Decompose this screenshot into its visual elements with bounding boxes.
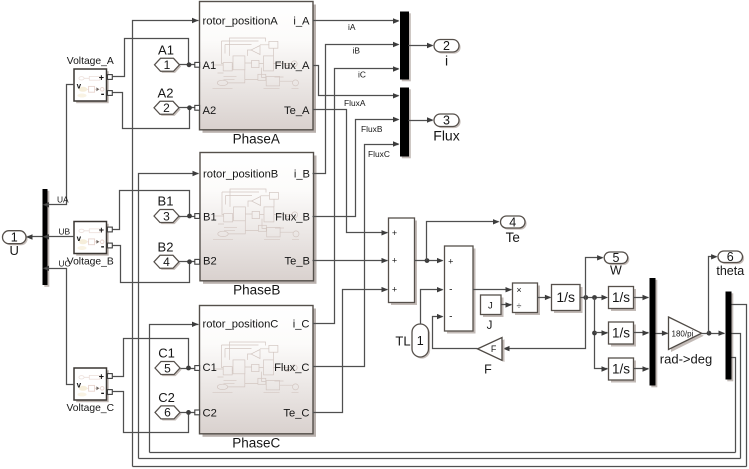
wire mux M_flux to port Flux — [409, 120, 433, 122]
junction junction Te — [425, 258, 430, 263]
svg-text:rotor_positionC: rotor_positionC — [203, 319, 279, 331]
wire rotor_positionB feedback (left) — [139, 174, 199, 459]
mux M_flux (bar) — [400, 88, 411, 159]
arrowhead into port Flux — [427, 117, 434, 122]
svg-text:A1: A1 — [158, 42, 174, 57]
port outport 2 i (oval 2) — [434, 39, 461, 68]
svg-text:TL: TL — [395, 334, 410, 349]
svg-text:B1: B1 — [203, 211, 217, 223]
wire feedback right A — [732, 305, 747, 467]
arrowhead Te_B into sum1 — [382, 258, 389, 263]
svg-text:iB: iB — [353, 46, 361, 56]
wire rotor_positionA feedback (left) — [133, 21, 199, 467]
wire C1 to phase terminal — [181, 368, 195, 370]
port outport 4 Te (oval 4) — [501, 215, 527, 244]
svg-text:W: W — [610, 264, 622, 278]
svg-text:+: + — [392, 228, 397, 238]
svg-text:Flux: Flux — [433, 128, 459, 144]
svg-text:Te: Te — [506, 230, 520, 245]
svg-text:-: - — [449, 311, 452, 322]
svg-text:U: U — [10, 243, 19, 258]
wire branch to port W — [586, 258, 603, 298]
block sum Sum1 (Te_A+Te_B+Te_C) — [389, 218, 418, 305]
svg-text:UB: UB — [59, 227, 71, 237]
wire branch to gain F — [503, 298, 586, 349]
port outport 6 theta (oval 6) — [716, 250, 744, 278]
arrowhead into rotor_positionB — [193, 171, 200, 176]
svg-text:+: + — [392, 285, 397, 295]
wire FluxA — [313, 66, 399, 96]
block Voltage_B (voltage measurement) — [67, 222, 114, 268]
junction junction theta — [707, 331, 712, 336]
wire gain F output to sum2 — [433, 317, 478, 349]
svg-text:1: 1 — [164, 58, 171, 72]
wire feedback right C — [732, 358, 736, 453]
svg-text:C1: C1 — [203, 362, 217, 374]
svg-text:PhaseC: PhaseC — [232, 435, 280, 450]
wire sum1 output — [415, 260, 443, 262]
svg-text:Flux_C: Flux_C — [274, 362, 309, 374]
wire A1 branch to voltage — [113, 39, 189, 77]
block integrator 1/s #3 — [609, 322, 637, 347]
svg-text:Te_B: Te_B — [285, 256, 311, 268]
svg-text:A2: A2 — [203, 105, 217, 117]
wire C2 branch to voltage — [113, 392, 189, 433]
wire sum2 output — [473, 289, 512, 291]
arrowhead into rotor_positionC — [192, 322, 199, 327]
wire Voltage_A output UA — [45, 85, 75, 205]
wire Voltage_C output UC — [45, 269, 75, 385]
terminal phase terminal B2 — [195, 259, 200, 264]
wire feedback bottom A — [133, 466, 747, 468]
svg-text:5: 5 — [164, 361, 171, 375]
svg-text:i_A: i_A — [293, 16, 310, 28]
svg-text:1/s: 1/s — [612, 361, 630, 376]
wire integrator2 to mux — [634, 297, 649, 299]
svg-text:UA: UA — [57, 195, 69, 205]
arrowhead FluxB into mux — [393, 117, 400, 122]
arrowhead iB into mux — [393, 42, 400, 47]
arrowhead TL into sum2 — [437, 287, 444, 292]
port outport 1 U (oval 1) — [3, 231, 28, 259]
arrowhead Te_C into sum1 — [382, 287, 389, 292]
wire branch to integrators — [595, 298, 608, 369]
wire B1 to phase terminal — [179, 216, 195, 218]
arrowhead J into divide — [506, 302, 513, 307]
svg-text:6: 6 — [164, 406, 171, 420]
svg-text:÷: ÷ — [517, 301, 522, 311]
svg-text:1: 1 — [417, 334, 424, 348]
block divide block (Te-TL-Fw)/J — [513, 283, 541, 315]
junction junction C2 — [186, 410, 191, 415]
terminal Voltage_B - terminal — [108, 243, 113, 248]
junction junction A2 — [187, 105, 192, 110]
junction junction A1 — [187, 62, 192, 67]
gain rad->deg (180/pi triangle) — [660, 317, 712, 367]
svg-text:rotor_positionB: rotor_positionB — [203, 169, 278, 181]
arrowhead FluxA into mux — [393, 93, 400, 98]
svg-text:J: J — [488, 301, 493, 312]
wire Te_C to sum1 — [313, 290, 388, 413]
arrowhead into demux — [719, 331, 726, 336]
gain F (triangle pointing left) — [478, 338, 505, 377]
svg-text:2: 2 — [163, 101, 170, 115]
svg-text:Te_A: Te_A — [284, 105, 310, 117]
svg-text:B2: B2 — [158, 239, 174, 254]
mux M_theta (bar) — [650, 278, 658, 387]
svg-text:FluxA: FluxA — [344, 98, 366, 108]
wire integrator1 output — [581, 297, 603, 299]
wire iB — [313, 45, 399, 174]
wire FluxB — [313, 120, 399, 217]
svg-text:J: J — [487, 320, 493, 332]
arrowhead FluxC into mux — [393, 141, 400, 146]
svg-text:F: F — [491, 344, 497, 354]
wire branch to port Te — [427, 222, 499, 261]
wire gain rad2deg output — [702, 333, 725, 335]
svg-text:+: + — [392, 256, 397, 266]
connection port C2 (hexagon 6) — [155, 390, 182, 421]
subsystem PhaseA — [200, 2, 317, 147]
wire Te_B to sum1 — [313, 260, 388, 262]
svg-text:Voltage_A: Voltage_A — [67, 56, 114, 67]
arrowhead int3 into mux2 — [643, 330, 650, 335]
svg-text:-: - — [449, 284, 452, 295]
connection port A1 (hexagon 1) — [155, 42, 182, 73]
wire C2 to phase terminal — [181, 412, 195, 414]
wire J to divide — [501, 304, 512, 306]
wire B1 branch to voltage — [113, 191, 190, 230]
svg-text:PhaseA: PhaseA — [233, 131, 280, 146]
wire B2 branch to voltage — [113, 246, 190, 283]
block integrator 1/s #1 — [552, 285, 583, 314]
wire feedback bottom B — [139, 458, 741, 460]
arrowhead sum2 into divide — [506, 287, 513, 292]
svg-text:3: 3 — [163, 209, 170, 223]
wire iC — [313, 69, 399, 324]
terminal Voltage_B + terminal — [108, 227, 113, 232]
svg-text:×: × — [516, 285, 521, 295]
terminal Voltage_A - terminal — [108, 91, 113, 96]
svg-text:F: F — [484, 363, 492, 377]
wire TL to sum2 — [421, 290, 443, 325]
svg-text:iA: iA — [348, 22, 356, 32]
junction junction w2 — [592, 295, 597, 300]
terminal Voltage_C - terminal — [108, 390, 113, 395]
mux M_i (bar) — [400, 12, 411, 82]
svg-text:Voltage_B: Voltage_B — [67, 257, 114, 268]
block constant J — [481, 295, 504, 317]
terminal phase terminal A1 — [195, 62, 200, 67]
block Voltage_A (voltage measurement) — [67, 56, 114, 103]
wire feedback bottom C — [150, 452, 736, 454]
svg-text:C2: C2 — [203, 407, 217, 419]
subsystem PhaseC — [200, 306, 317, 451]
svg-text:Flux_A: Flux_A — [275, 60, 310, 72]
svg-text:A2: A2 — [158, 85, 174, 100]
arrowhead into port U — [26, 234, 33, 239]
junction junction w1 — [583, 295, 588, 300]
junction junction int3 — [592, 331, 597, 336]
port outport 3 Flux (oval 3) — [433, 114, 460, 144]
port outport 5 W (oval 5) — [604, 251, 629, 277]
wire B2 to phase terminal — [179, 261, 195, 263]
svg-text:6: 6 — [727, 250, 734, 264]
subsystem PhaseB — [200, 153, 317, 298]
arrowhead into port i — [427, 43, 434, 48]
svg-text:2: 2 — [443, 39, 450, 53]
svg-text:rotor_positionA: rotor_positionA — [203, 16, 279, 28]
svg-text:3: 3 — [443, 114, 450, 128]
junction junction B2 — [187, 259, 192, 264]
wire FluxC — [313, 145, 399, 367]
terminal phase terminal B1 — [195, 214, 200, 219]
connection port B1 (hexagon 3) — [154, 194, 181, 225]
svg-text:Flux_B: Flux_B — [275, 211, 310, 223]
svg-text:4: 4 — [509, 215, 516, 229]
arrowhead F into sum2 — [437, 314, 444, 319]
wire A2 to phase terminal — [179, 107, 195, 109]
block sum Sum2 (Te-TL-F*w) — [445, 246, 476, 334]
terminal Voltage_A + terminal — [108, 75, 113, 80]
arrowhead into port Te — [493, 219, 500, 224]
block Voltage_C (voltage measurement) — [66, 368, 114, 414]
svg-text:PhaseB: PhaseB — [233, 282, 280, 297]
arrowhead into integrator 1/s #1 — [545, 295, 552, 300]
arrowhead int4 into mux2 — [643, 366, 650, 371]
svg-text:B1: B1 — [158, 194, 174, 209]
junction junction B1 — [187, 214, 192, 219]
svg-text:1/s: 1/s — [612, 290, 630, 305]
wire mux M_U output to port U — [28, 236, 43, 238]
terminal phase terminal A2 — [195, 105, 200, 110]
svg-text:i: i — [445, 53, 448, 69]
svg-text:i_C: i_C — [293, 319, 310, 331]
connection port C1 (hexagon 5) — [155, 346, 182, 377]
wire mux2 to gain rad2deg — [656, 333, 668, 335]
svg-text:FluxC: FluxC — [368, 149, 390, 159]
connection port B2 (hexagon 4) — [154, 239, 181, 270]
svg-text:1/s: 1/s — [556, 289, 575, 305]
arrowhead into gain rad2deg — [662, 331, 669, 336]
arrowhead UA into mux — [43, 202, 50, 207]
mux M_U (bar) — [43, 189, 50, 287]
wire A1 to phase terminal — [180, 64, 195, 66]
arrowhead into gain F — [503, 346, 510, 351]
wire Te_A to sum1 — [313, 110, 388, 233]
wire iA — [313, 20, 399, 22]
wire branch to port theta — [709, 257, 717, 334]
port inport 1 TL (vertical) (oval 1) — [412, 324, 430, 359]
svg-text:theta: theta — [716, 264, 744, 278]
svg-text:4: 4 — [163, 255, 170, 269]
arrowhead into integrator #2 — [602, 295, 609, 300]
wire mux M_i to port i — [409, 45, 433, 47]
arrowhead iA into mux — [393, 18, 400, 23]
svg-text:Voltage_C: Voltage_C — [66, 403, 114, 414]
connection port A2 (hexagon 2) — [154, 85, 181, 116]
wire A2 branch to voltage — [113, 93, 190, 129]
svg-text:180/pi: 180/pi — [672, 329, 694, 338]
arrowhead sum1 out into sum2 — [437, 258, 444, 263]
wire integrator3 to mux — [634, 332, 649, 334]
wire C1 branch to voltage — [113, 339, 189, 377]
arrowhead into port theta — [711, 254, 718, 259]
wire feedback right B — [732, 334, 741, 459]
block integrator 1/s #2 — [609, 287, 637, 312]
arrowhead UB into mux — [43, 234, 50, 239]
arrowhead Te_A into sum1 — [382, 230, 389, 235]
svg-text:A1: A1 — [203, 60, 217, 72]
svg-text:Te_C: Te_C — [283, 407, 309, 419]
wire divide to integrator — [538, 297, 551, 299]
svg-text:i_B: i_B — [294, 169, 310, 181]
wire rotor_positionC feedback (left) — [150, 325, 199, 453]
demux D_theta (bar) — [726, 292, 734, 382]
arrowhead int2 into mux2 — [643, 295, 650, 300]
terminal phase terminal C1 — [195, 366, 200, 371]
svg-text:C1: C1 — [158, 346, 175, 361]
wire Voltage_B output UB — [45, 236, 75, 238]
junction junction C1 — [186, 366, 191, 371]
svg-text:1/s: 1/s — [612, 325, 630, 340]
svg-text:+: + — [448, 256, 453, 266]
terminal phase terminal C2 — [195, 410, 200, 415]
arrowhead into integrator #3 — [602, 330, 609, 335]
arrowhead iC into mux — [393, 66, 400, 71]
svg-text:B2: B2 — [203, 256, 217, 268]
svg-text:FluxB: FluxB — [361, 124, 383, 134]
arrowhead UC into mux — [43, 266, 50, 271]
block integrator 1/s #4 — [609, 358, 637, 383]
svg-text:UC: UC — [59, 258, 71, 268]
arrowhead into rotor_positionA — [192, 18, 199, 23]
svg-text:rad->deg: rad->deg — [660, 352, 712, 367]
svg-text:C2: C2 — [158, 390, 175, 405]
arrowhead into integrator #4 — [602, 366, 609, 371]
arrowhead into port W — [597, 255, 604, 260]
svg-text:iC: iC — [358, 70, 366, 80]
wire branch to integrator 3 — [595, 332, 608, 334]
wire integrator4 to mux — [634, 368, 649, 370]
terminal Voltage_C + terminal — [108, 374, 113, 379]
